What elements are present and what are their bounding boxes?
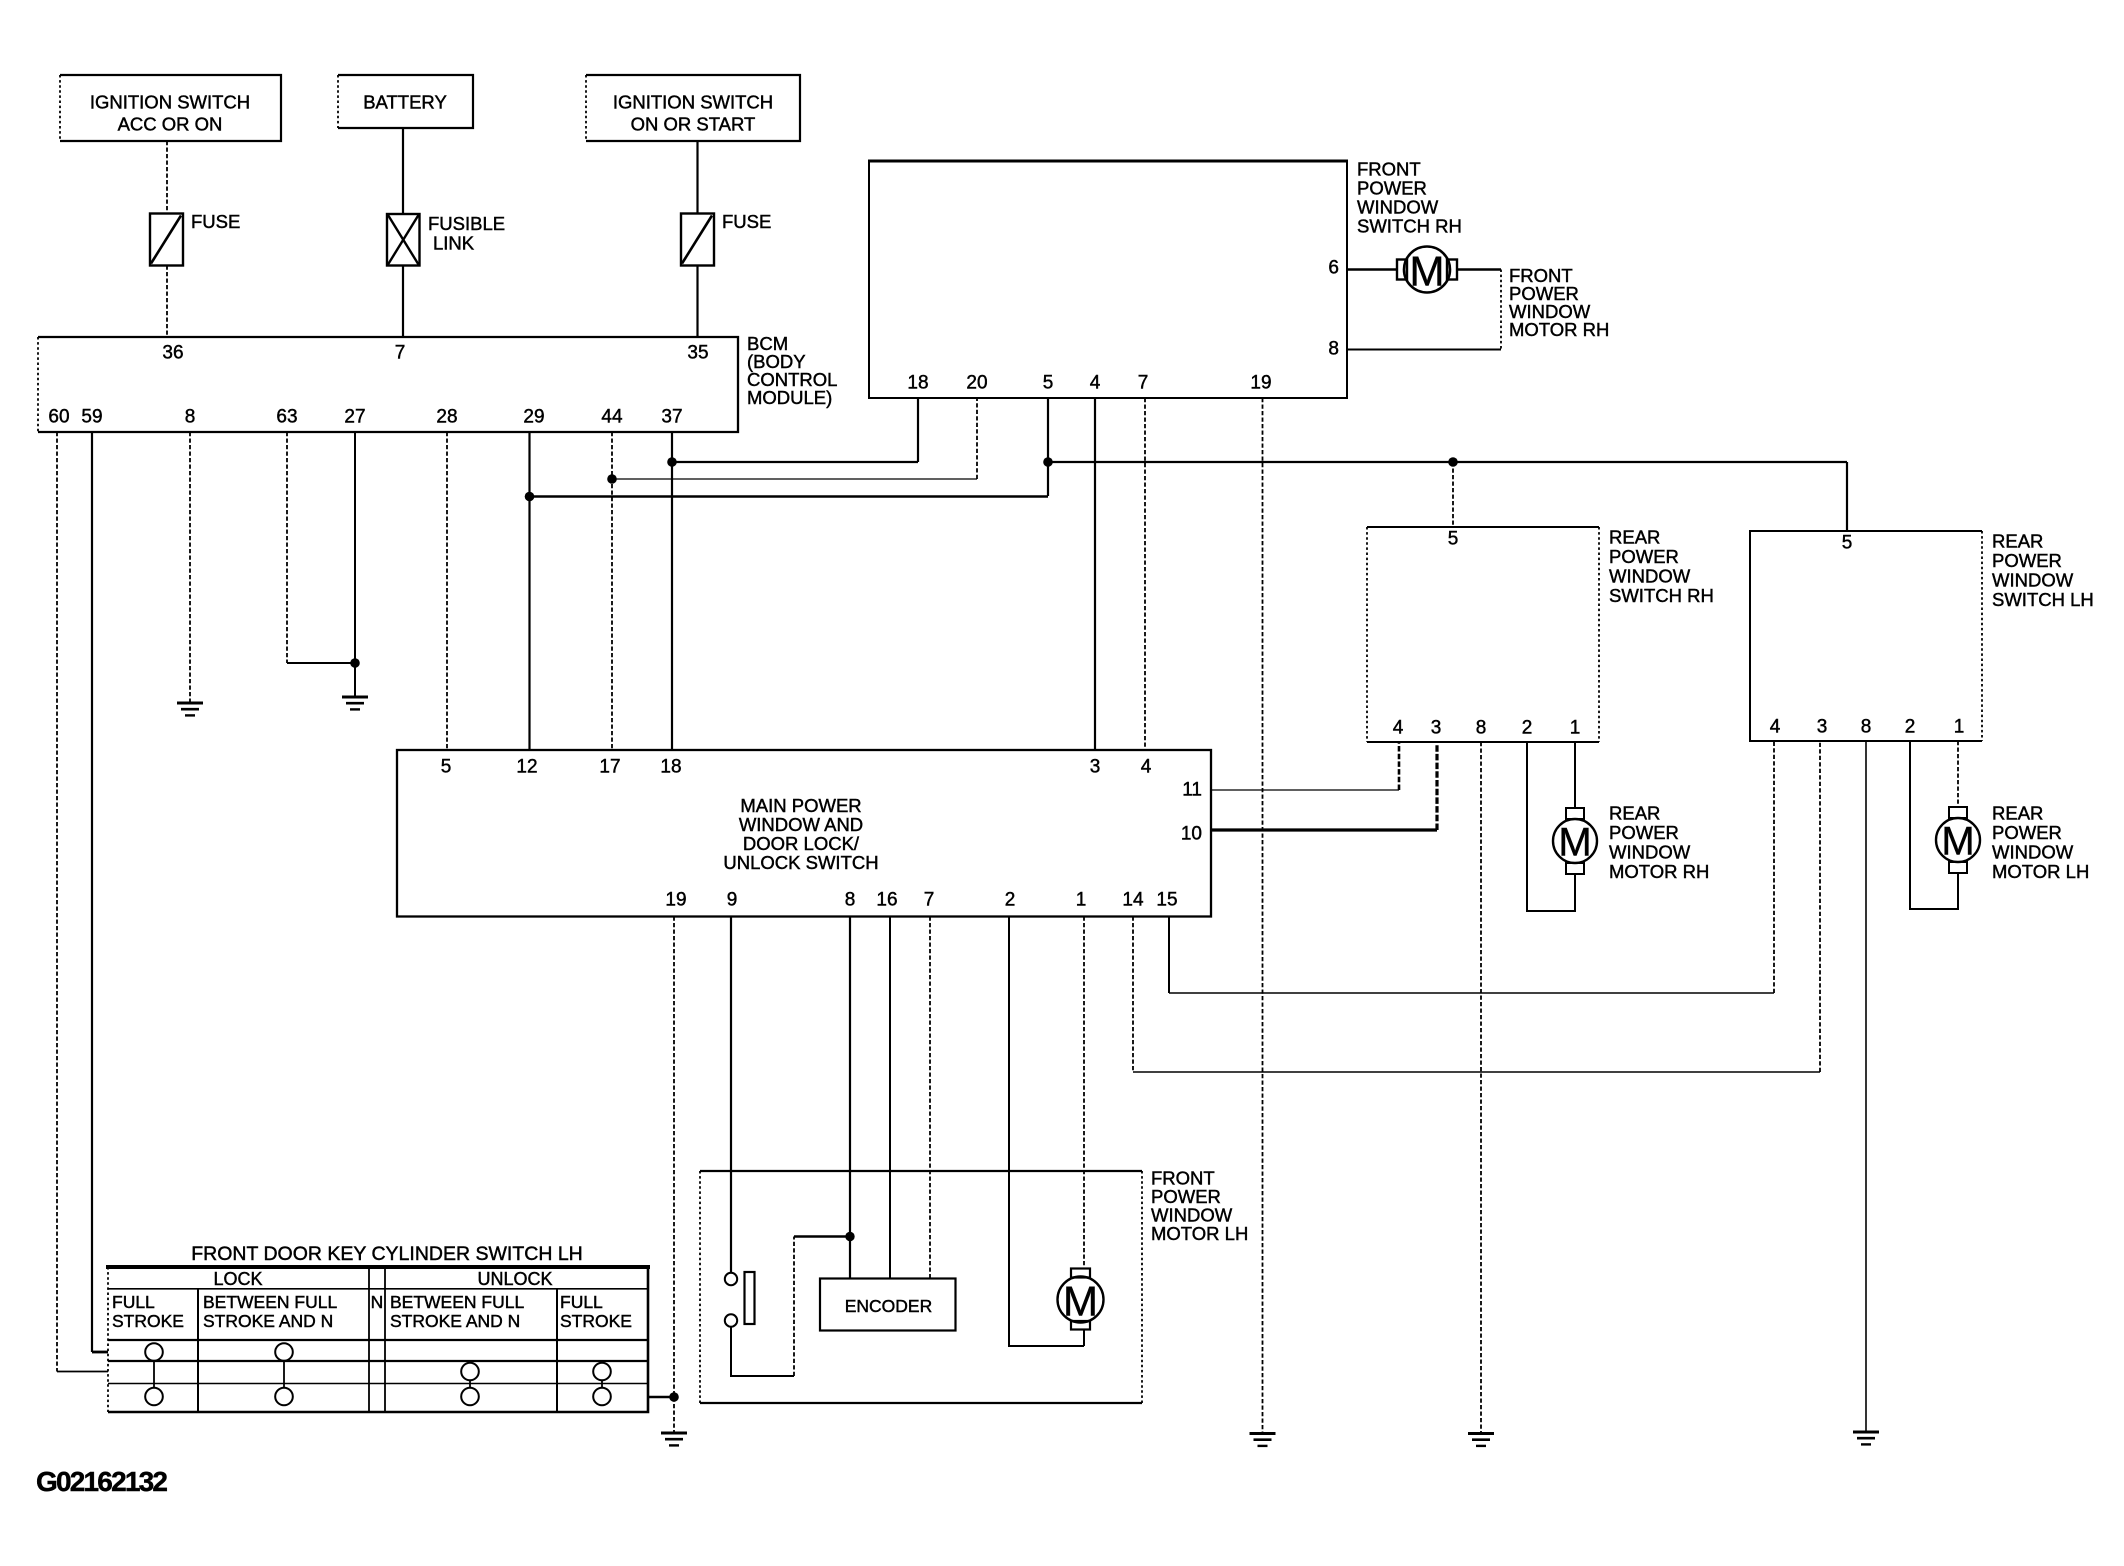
svg-text:FUSE: FUSE [191,211,240,232]
junction power node at front pin 5 riser [1043,457,1053,467]
wire ignition START to fuse F2 [696,141,698,214]
svg-text:59: 59 [81,407,102,428]
svg-text:DOOR LOCK/: DOOR LOCK/ [743,833,860,854]
svg-text:LOCK: LOCK [213,1269,262,1289]
wire rear LH pin 1 to motor M4 (dashed) [1957,741,1959,807]
svg-text:3: 3 [1431,718,1442,739]
svg-text:1: 1 [1570,718,1581,739]
svg-text:8: 8 [1328,339,1339,360]
svg-text:1: 1 [1954,717,1965,738]
svg-text:4: 4 [1393,718,1404,739]
svg-text:37: 37 [661,407,682,428]
junction BCM29 branch [525,492,535,502]
wire BCM 60 to key cylinder row B (dashed) [57,432,108,1372]
svg-text:15: 15 [1156,890,1177,911]
svg-text:5: 5 [1842,533,1853,554]
wire battery to fusible link [402,128,404,214]
wire BCM 63 down and right (dashed) [287,432,355,663]
wire rear RH pin 1 to motor M3 [1574,742,1576,808]
svg-text:60: 60 [48,407,69,428]
switch S1 FRONT POWER WINDOW SWITCH RH [868,159,1462,399]
wire front switch pin 4 to MAIN pin 3 [1094,398,1096,750]
svg-text:11: 11 [1182,780,1202,801]
wire MAIN pin 10 to rear switch RH pin 3 (thick) [1211,742,1437,830]
svg-text:UNLOCK SWITCH: UNLOCK SWITCH [723,852,878,873]
svg-text:POWER: POWER [1609,822,1679,843]
svg-text:LINK: LINK [433,233,475,254]
svg-text:FRONT: FRONT [1357,159,1421,180]
svg-text:SWITCH LH: SWITCH LH [1992,589,2094,610]
svg-text:M: M [1941,820,1974,864]
svg-text:MAIN POWER: MAIN POWER [740,795,861,816]
door contact switch in motor LH [725,1272,755,1327]
svg-text:WINDOW AND: WINDOW AND [739,814,863,835]
svg-text:18: 18 [907,373,928,394]
key cylinder unlock contacts column BETWEEN FULL STROKE AND N [461,1363,479,1406]
wire ignition ACC to fuse F1 (dashed) [166,141,168,214]
svg-text:5: 5 [1043,373,1054,394]
junction at BCM27 wire [350,658,360,668]
wire MAIN pin 2 to motor M2 low side [1009,917,1084,1347]
svg-text:STROKE AND N: STROKE AND N [390,1311,520,1331]
wire BCM 28 to MAIN pin 5 (dashed) [446,432,448,750]
svg-text:WINDOW: WINDOW [1357,197,1439,218]
wire MAIN pin 9 to door contact [730,917,732,1273]
svg-text:10: 10 [1181,824,1202,845]
svg-text:M: M [1410,248,1445,295]
wire front switch pin 7 to MAIN pin 4 (dashed) [1144,398,1146,750]
svg-text:8: 8 [1476,718,1487,739]
wire fuse F1 to BCM pin 36 (dashed) [166,266,168,338]
svg-text:8: 8 [1861,717,1872,738]
svg-text:SWITCH RH: SWITCH RH [1609,585,1714,606]
svg-text:ENCODER: ENCODER [845,1296,933,1316]
svg-text:19: 19 [1250,373,1271,394]
svg-text:2: 2 [1522,718,1533,739]
svg-text:BETWEEN FULL: BETWEEN FULL [203,1292,337,1312]
svg-text:35: 35 [687,343,708,364]
wire motor M4 return to rear LH pin 2 [1910,741,1958,909]
svg-text:4: 4 [1090,373,1101,394]
motor M1 FRONT POWER WINDOW MOTOR RH [1397,247,1609,341]
svg-text:63: 63 [276,407,297,428]
wire BCM 8 to ground G1 (dashed) [189,432,191,703]
wire key cylinder common to ground node [648,1396,674,1399]
key cylinder lock contacts column BETWEEN FULL STROKE AND N [275,1343,293,1405]
ground G3 key cylinder [661,1433,687,1445]
wire branch to front switch pin 18 [672,398,918,462]
wire BCM 59 to key cylinder row A [92,432,108,1352]
svg-text:WINDOW: WINDOW [1992,570,2074,591]
svg-text:4: 4 [1141,757,1152,778]
svg-text:17: 17 [599,757,620,778]
box IGNITION SWITCH ACC OR ON [60,75,281,141]
wire MAIN pin 14 to rear switch LH pin 3 (dashed riser) [1133,741,1820,1072]
ground G2 [342,697,368,709]
svg-text:MOTOR RH: MOTOR RH [1609,861,1709,882]
svg-text:7: 7 [395,343,406,364]
svg-text:REAR: REAR [1992,803,2043,824]
motor M2 symbol [1058,1269,1104,1330]
junction BCM44 branch [607,474,617,484]
svg-text:POWER: POWER [1609,546,1679,567]
svg-text:18: 18 [660,757,681,778]
svg-text:WINDOW: WINDOW [1992,842,2074,863]
svg-text:FUSE: FUSE [722,211,771,232]
svg-text:FULL: FULL [112,1292,155,1312]
svg-text:2: 2 [1905,717,1916,738]
svg-text:IGNITION SWITCH: IGNITION SWITCH [90,92,250,113]
svg-text:IGNITION SWITCH: IGNITION SWITCH [613,92,773,113]
svg-text:6: 6 [1328,258,1339,279]
svg-text:44: 44 [601,407,623,428]
svg-text:19: 19 [665,890,686,911]
svg-text:FRONT DOOR KEY CYLINDER SWITCH: FRONT DOOR KEY CYLINDER SWITCH LH [191,1243,583,1265]
wire front switch pin 6 to motor M1 [1347,268,1398,270]
motor M3 REAR POWER WINDOW MOTOR RH [1553,803,1709,883]
switch S4 REAR POWER WINDOW SWITCH LH [1750,531,2094,742]
svg-text:7: 7 [1138,373,1149,394]
module U1 BCM (BODY CONTROL MODULE) [38,333,837,432]
ground G1 [177,703,203,715]
svg-text:MODULE): MODULE) [747,387,832,408]
junction power bus to rear RH [1448,457,1458,467]
svg-text:36: 36 [162,343,183,364]
fuse F1 [150,211,240,266]
wire MAIN pin 19 to key cylinder common and ground (dashed) [673,917,675,1434]
svg-text:29: 29 [523,407,544,428]
svg-text:2: 2 [1005,890,1016,911]
wire contact to encoder supply node [731,1237,850,1377]
svg-text:4: 4 [1770,717,1781,738]
svg-text:M: M [1063,1278,1098,1325]
junction BCM37 branch [667,457,677,467]
svg-text:STROKE: STROKE [560,1311,632,1331]
wire rear RH pin 8 to ground G5 (dashed) [1480,742,1482,1434]
box BATTERY [338,75,473,128]
svg-text:STROKE: STROKE [112,1311,184,1331]
key cylinder unlock contacts column FULL STROKE [593,1363,611,1406]
svg-text:14: 14 [1122,890,1144,911]
svg-text:16: 16 [876,890,897,911]
svg-text:POWER: POWER [1992,550,2062,571]
switch S2 MAIN POWER WINDOW AND DOOR LOCK/UNLOCK SWITCH [397,750,1211,917]
svg-text:MOTOR LH: MOTOR LH [1992,861,2089,882]
svg-text:ON OR START: ON OR START [631,114,756,135]
wire power bus to rear switches pin 5 [1048,462,1847,531]
svg-text:20: 20 [966,373,987,394]
wire BCM 37 to MAIN pin 18 [671,432,673,750]
junction door contact to pin 8 wire [845,1232,854,1241]
svg-text:8: 8 [185,407,196,428]
wire MAIN pin 11 to rear switch RH pin 4 [1211,742,1399,790]
svg-text:BETWEEN FULL: BETWEEN FULL [390,1292,524,1312]
wire fuse F2 to BCM pin 35 [696,266,698,338]
fuse F2 [681,211,771,266]
svg-text:7: 7 [924,890,935,911]
svg-text:27: 27 [344,407,365,428]
wire MAIN pin 1 to motor M2 (dashed) [1083,917,1085,1269]
fusible link [387,213,505,266]
switch S5 FRONT DOOR KEY CYLINDER SWITCH LH [106,1243,650,1412]
wire front switch pin 19 to ground G4 (dashed) [1262,398,1264,1434]
svg-text:5: 5 [441,757,452,778]
svg-text:G02162132: G02162132 [36,1466,167,1497]
wire BCM 29 to MAIN pin 12 [528,432,530,750]
key cylinder lock contacts column FULL STROKE [145,1343,163,1405]
svg-text:BATTERY: BATTERY [363,92,447,113]
box IGNITION SWITCH ON OR START [586,75,800,141]
wire power branch to front switch pin 5 [530,398,1049,497]
ground G4 front switch pin 19 [1250,1434,1276,1446]
svg-text:3: 3 [1090,757,1101,778]
wire MAIN pin 8 to encoder [849,917,851,1279]
svg-text:28: 28 [436,407,457,428]
wire MAIN pin 15 to rear switch LH pin 4 [1169,741,1774,993]
svg-text:12: 12 [516,757,537,778]
svg-text:ACC OR ON: ACC OR ON [118,114,223,135]
svg-text:M: M [1558,821,1591,865]
svg-text:9: 9 [727,890,738,911]
wire motor M3 return to rear RH pin 2 [1527,742,1575,911]
svg-text:N: N [371,1292,384,1312]
svg-text:5: 5 [1448,529,1459,550]
wire power bus drop to rear switch RH pin 5 (dashed) [1452,462,1454,527]
wire MAIN pin 16 to encoder [889,917,891,1279]
svg-text:1: 1 [1076,890,1087,911]
wire BCM 27 to ground G2 [354,432,356,697]
svg-text:8: 8 [845,890,856,911]
junction key cylinder common [669,1392,679,1402]
ground G6 rear LH pin 8 [1853,1432,1879,1444]
svg-text:WINDOW: WINDOW [1609,842,1691,863]
wire fusible link to BCM pin 7 [402,266,404,338]
svg-text:REAR: REAR [1609,527,1660,548]
svg-text:FUSIBLE: FUSIBLE [428,213,505,234]
svg-text:POWER: POWER [1357,178,1427,199]
svg-text:MOTOR RH: MOTOR RH [1509,319,1609,340]
wire motor M1 return to front switch pin 8 [1347,270,1501,350]
ground G5 rear RH pin 8 [1468,1434,1494,1446]
wire branch to front switch pin 20 [612,398,977,479]
module M2 FRONT POWER WINDOW MOTOR LH [700,1168,1248,1404]
svg-text:REAR: REAR [1609,803,1660,824]
svg-text:3: 3 [1817,717,1828,738]
switch S3 REAR POWER WINDOW SWITCH RH [1367,527,1714,743]
svg-text:FULL: FULL [560,1292,603,1312]
encoder U2 [820,1279,956,1331]
svg-text:UNLOCK: UNLOCK [477,1269,552,1289]
wire BCM 44 to MAIN pin 17 (dashed) [611,432,613,750]
svg-text:REAR: REAR [1992,531,2043,552]
svg-text:STROKE AND N: STROKE AND N [203,1311,333,1331]
svg-text:POWER: POWER [1992,822,2062,843]
svg-text:MOTOR LH: MOTOR LH [1151,1223,1248,1244]
wire rear LH pin 8 to ground G6 [1865,741,1867,1432]
wire motor M2 bottom to pin2 line [1083,1330,1085,1347]
svg-text:WINDOW: WINDOW [1609,566,1691,587]
motor M4 REAR POWER WINDOW MOTOR LH [1936,803,2089,883]
svg-text:SWITCH RH: SWITCH RH [1357,216,1462,237]
wire MAIN pin 7 to encoder (dashed) [929,917,931,1279]
